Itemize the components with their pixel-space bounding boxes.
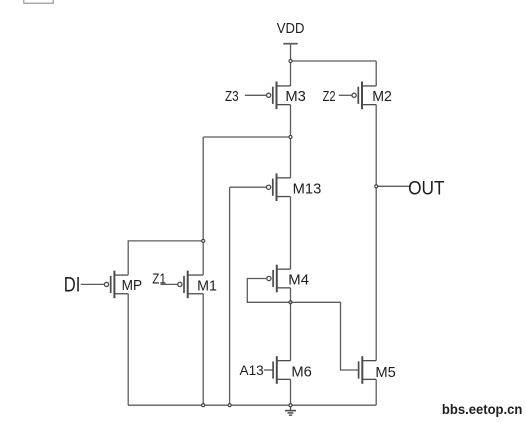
wire M3 drain vertical <box>290 61 292 86</box>
node OUT junction <box>375 185 378 188</box>
partial border box (top-left) <box>24 0 53 3</box>
wire M4 gate loop to its source node <box>247 279 290 303</box>
transistor M6 (NMOS) <box>273 356 290 384</box>
wire Z3 to M3 gate <box>245 94 266 96</box>
svg-text:M1: M1 <box>197 278 217 294</box>
svg-text:M5: M5 <box>375 365 396 381</box>
node junction ground at rail <box>289 404 292 407</box>
wire DI to MP gate <box>81 283 105 285</box>
wire top rail from M3 drain to M2 drain <box>291 60 377 62</box>
wire OUT stub <box>376 185 409 187</box>
wire from M4 source junction to M5 gate <box>291 302 359 370</box>
wire Z1 to M1 gate <box>161 283 178 285</box>
transistor M2 (PMOS) <box>352 82 376 110</box>
transistor M3 (PMOS) <box>267 82 291 110</box>
node junction M1 source at rail <box>202 404 205 407</box>
node junction at M4 source <box>289 301 292 304</box>
svg-text:M13: M13 <box>293 181 322 197</box>
wire M4 source down to junction <box>290 288 292 302</box>
wire left branch vertical down to MP/M1 drains <box>202 137 204 275</box>
svg-text:DI: DI <box>64 273 81 296</box>
wire branch to left at mid level <box>203 136 290 138</box>
svg-text:VDD: VDD <box>277 20 305 37</box>
node junction at VDD stub / top rail <box>289 60 292 63</box>
wire M2 drain vertical <box>375 61 377 86</box>
transistor M1 (PMOS) <box>178 271 204 299</box>
node junction on M3 source column <box>289 136 292 139</box>
wire MP drain up and right to M1 drain column <box>128 241 203 275</box>
wire A13 to M6 gate <box>264 369 273 371</box>
transistor M4 (PMOS) <box>267 265 291 293</box>
wire junction down to M6 drain <box>290 302 292 360</box>
svg-text:MP: MP <box>122 278 143 294</box>
transistor M13 (PMOS) <box>267 173 291 201</box>
svg-text:OUT: OUT <box>408 178 445 199</box>
svg-text:Z3: Z3 <box>225 89 239 105</box>
svg-text:Z1: Z1 <box>152 272 166 288</box>
wire M6 source down to bottom rail <box>290 379 292 405</box>
wire MP source down to bottom rail <box>127 294 129 405</box>
wire M2 source long vertical to M5 drain <box>375 105 377 361</box>
wire Z2 to M2 gate <box>339 94 352 96</box>
wire bottom rail <box>128 404 376 406</box>
wire M13 gate horizontal <box>230 186 267 188</box>
svg-text:A13: A13 <box>240 362 264 378</box>
svg-text:M2: M2 <box>372 89 392 105</box>
svg-text:M4: M4 <box>288 272 309 288</box>
wire M13 source down to M4 drain <box>290 197 292 270</box>
svg-text:M3: M3 <box>285 89 306 105</box>
ground symbol <box>285 407 296 416</box>
wire M13 gate column down to bottom rail <box>229 187 231 405</box>
svg-text:M6: M6 <box>291 364 312 380</box>
power VDD symbol <box>283 44 297 61</box>
node junction MP/M1 drain tie <box>202 239 205 242</box>
node junction M13-gate column at rail <box>228 404 231 407</box>
wire M3 source down to M13 drain <box>290 105 292 178</box>
wire M5 source down to bottom rail <box>375 379 377 405</box>
transistor M5 (NMOS) <box>359 356 377 384</box>
transistor MP (PMOS) <box>104 271 128 299</box>
wire M1 source down to bottom rail <box>202 294 204 405</box>
svg-text:bbs.eetop.cn: bbs.eetop.cn <box>442 401 523 417</box>
power VDD label <box>277 20 305 37</box>
svg-text:Z2: Z2 <box>323 89 336 105</box>
